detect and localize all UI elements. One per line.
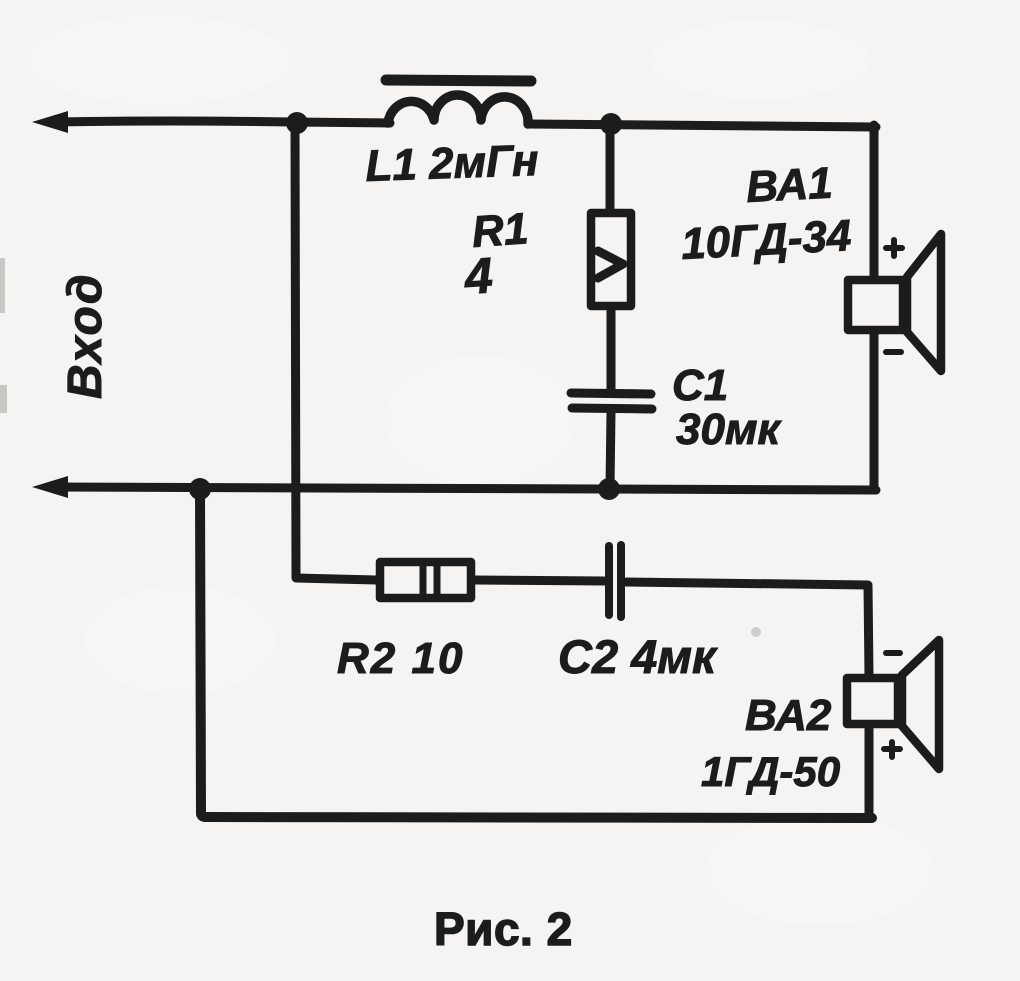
svg-text:C2 4мк: C2 4мк (558, 630, 718, 683)
svg-text:30мк: 30мк (676, 405, 782, 454)
svg-text:1ГД-50: 1ГД-50 (701, 748, 840, 795)
svg-text:Рис. 2: Рис. 2 (434, 903, 573, 955)
svg-text:ВА2: ВА2 (745, 691, 832, 740)
svg-text:ВА1: ВА1 (745, 159, 834, 212)
svg-text:L1 2мГн: L1 2мГн (365, 136, 540, 191)
svg-text:4: 4 (462, 247, 495, 305)
svg-text:C1: C1 (672, 361, 728, 410)
svg-text:10ГД-34: 10ГД-34 (680, 211, 853, 269)
svg-text:R2 10: R2 10 (337, 634, 464, 683)
svg-text:Вход: Вход (59, 272, 112, 399)
